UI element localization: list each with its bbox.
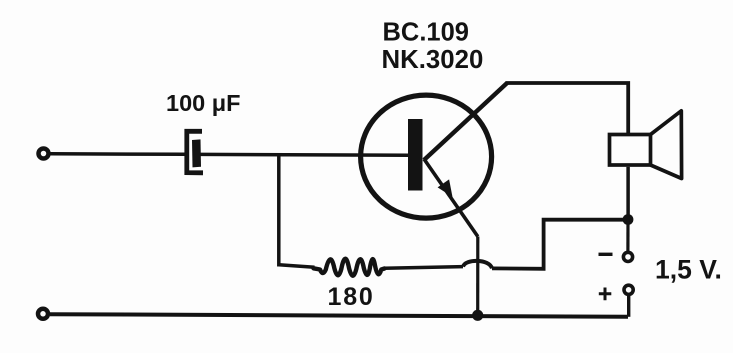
- resistor R1 zigzag: [314, 259, 385, 276]
- input terminal top-left: [39, 149, 49, 159]
- collector line of Q1: [424, 83, 507, 160]
- wire: emitter down to bottom rail: [476, 237, 479, 316]
- wire: speaker bottom to minus node junction: [626, 167, 630, 220]
- wire: resistor left lead: [279, 265, 315, 268]
- input terminal bottom-left: [38, 309, 48, 319]
- wire: hop to corner, up and right to minus node: [492, 220, 628, 269]
- speaker frame rectangle: [610, 135, 651, 166]
- wire: capacitor to transistor base: [201, 153, 410, 157]
- wire: branch down from base wire to resistor: [279, 156, 280, 265]
- capacitor C1 solid plate: [192, 139, 201, 167]
- wire: plus terminal down to bottom rail: [627, 294, 630, 317]
- bottom rail wire: [50, 314, 628, 317]
- svg-text:1,5 V.: 1,5 V.: [655, 255, 722, 285]
- transistor Q1 base bar: [408, 119, 423, 191]
- wire: resistor right lead to crossover: [384, 267, 463, 269]
- capacitor C1 bracket plate: [187, 131, 203, 173]
- svg-text:NK.3020: NK.3020: [382, 46, 484, 74]
- transistor Q1 body circle: [361, 95, 492, 218]
- emitter arrowhead: [438, 179, 453, 197]
- svg-text:180: 180: [328, 283, 375, 311]
- svg-text:BC.109: BC.109: [383, 19, 469, 47]
- wire: junction down to minus terminal: [626, 220, 629, 253]
- junction dot at minus node: [623, 214, 634, 225]
- speaker cone: [651, 111, 682, 179]
- svg-text:100 μF: 100 μF: [166, 90, 240, 116]
- emitter line of Q1: [424, 159, 478, 237]
- wire: collector rail to speaker: [506, 83, 629, 134]
- junction dot emitter-bottom rail: [472, 310, 483, 321]
- minus sign: [599, 253, 613, 256]
- battery minus terminal: [623, 252, 632, 261]
- wire hop over emitter wire: [463, 261, 492, 269]
- battery plus terminal: [624, 285, 633, 294]
- plus sign: [599, 288, 612, 301]
- wire: input terminal to capacitor: [51, 152, 186, 156]
